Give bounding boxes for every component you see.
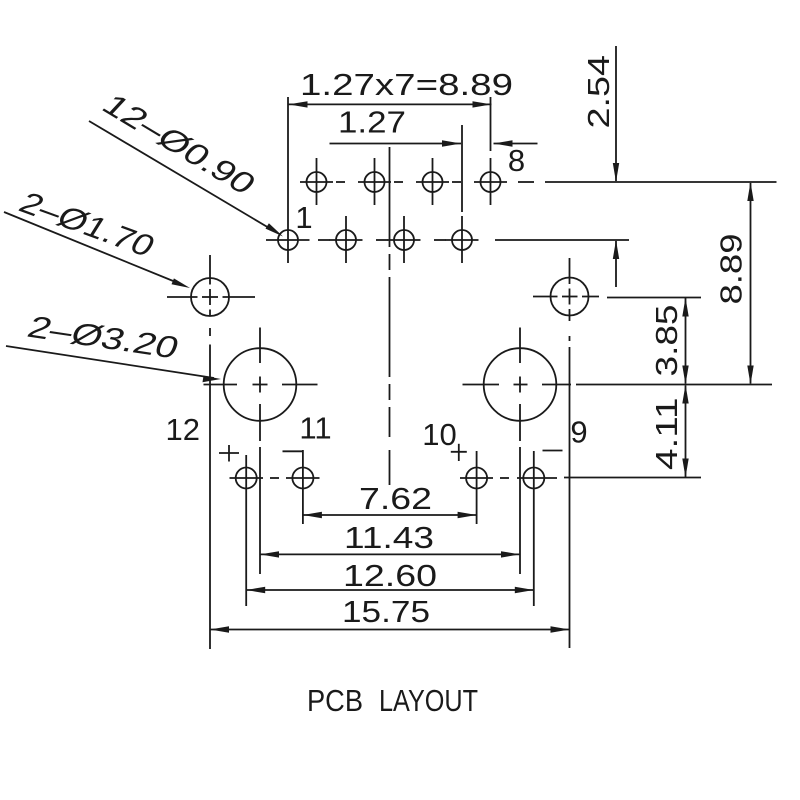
hole pin 8 row1 — [474, 158, 507, 205]
hole mounting right 1.70 — [533, 278, 599, 316]
extension line left 11.43 vertical — [259, 328, 261, 364]
hole pin 3 row2 — [388, 216, 421, 263]
svg-text:LAYOUT: LAYOUT — [379, 683, 478, 718]
polarity minus near pin 11 — [283, 450, 303, 452]
svg-text:8: 8 — [508, 143, 525, 178]
dimension 8.89 vertical — [714, 182, 754, 385]
centerline dashes row2 — [318, 239, 446, 241]
extension line right 11.43 vertical — [519, 328, 521, 364]
dimension 1.27 — [330, 105, 538, 213]
hole pin 7 row1 — [416, 158, 449, 205]
leader 12-0.90 — [89, 88, 283, 236]
center line vertical — [389, 147, 391, 247]
extension line y297.5 right — [607, 297, 701, 299]
dimension 7.62 — [303, 481, 477, 518]
leader 2-1.70 — [4, 186, 190, 288]
svg-text:8.89: 8.89 — [714, 234, 749, 305]
hole pin 10 bottom — [460, 451, 493, 524]
dimension 1.27x7=8.89 — [288, 67, 513, 216]
hole pin 2 row2 — [330, 216, 363, 263]
svg-text:15.75: 15.75 — [342, 594, 430, 629]
svg-text:1: 1 — [295, 200, 312, 235]
centerline dash between pins 10 9 — [500, 477, 509, 479]
hole pin 5 row1 — [300, 158, 333, 205]
polarity plus near pin 12 — [219, 445, 239, 462]
svg-text:11: 11 — [299, 411, 331, 446]
hole pin 6 row1 — [358, 158, 391, 205]
svg-text:4.11: 4.11 — [649, 398, 684, 471]
svg-text:7.62: 7.62 — [359, 481, 432, 516]
hole plastic post left 3.20 — [204, 348, 318, 421]
dimension 3.85 — [649, 298, 689, 385]
polarity minus near pin 9 — [543, 450, 563, 452]
extension line right 15.75 vertical — [569, 258, 571, 284]
extension line left 15.75 vertical — [209, 255, 211, 285]
centerline dash between pins 12 11 — [270, 477, 279, 479]
dimension 15.75 — [210, 594, 570, 633]
centerline row1 right extension — [518, 181, 534, 183]
centerline dashes row1 — [336, 181, 461, 183]
polarity plus near pin 10 — [451, 444, 467, 461]
hole pin 12 bottom — [230, 455, 264, 606]
svg-text:9: 9 — [570, 415, 587, 450]
svg-text:3.85: 3.85 — [649, 305, 684, 377]
hole pin 1 row2 — [266, 216, 310, 263]
svg-text:11.43: 11.43 — [344, 520, 434, 555]
dimension 4.11 — [649, 385, 689, 478]
dimension 2.54 — [581, 46, 619, 287]
hole pin 4 row2 — [446, 216, 479, 263]
dimension 11.43 — [260, 520, 520, 558]
svg-text:10: 10 — [422, 417, 456, 452]
hole pin 9 bottom — [517, 451, 557, 606]
extension line y477.5 right — [564, 477, 701, 479]
svg-text:12: 12 — [166, 412, 200, 447]
svg-text:1.27x7=8.89: 1.27x7=8.89 — [300, 67, 513, 102]
hole plastic post right 3.20 — [463, 348, 572, 421]
dimension 12.60 — [246, 558, 534, 593]
centerline row2 right extension — [495, 239, 629, 241]
svg-text:1.27: 1.27 — [338, 105, 406, 140]
leader 2-3.20 — [6, 310, 221, 382]
hole pin 11 bottom — [286, 450, 320, 524]
title PCB LAYOUT — [307, 683, 478, 718]
svg-text:12.60: 12.60 — [343, 558, 437, 593]
svg-text:2.54: 2.54 — [581, 55, 616, 129]
extension line y384 right — [576, 384, 772, 386]
hole mounting left 1.70 — [167, 278, 255, 316]
svg-text:PCB: PCB — [307, 683, 363, 718]
